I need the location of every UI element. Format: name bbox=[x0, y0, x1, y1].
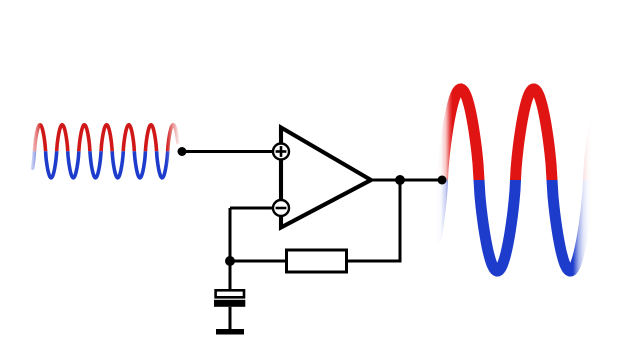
node: feedback junction dot bbox=[225, 256, 235, 266]
node: output terminal dot bbox=[438, 176, 447, 185]
wire: inverting input vertical down to feedback junction bbox=[229, 208, 232, 262]
op-amp U1 triangle bbox=[281, 128, 371, 228]
wire: input node to + input bbox=[182, 150, 274, 153]
wire: op-amp output to output node bbox=[368, 179, 442, 182]
op-amp non-inverting input circle bbox=[273, 144, 289, 160]
resistor R1 (feedback) bbox=[287, 250, 347, 272]
op-amp inverting input circle bbox=[273, 200, 289, 216]
wire: output branch vertical bbox=[399, 180, 402, 261]
node: input wave terminal dot bbox=[178, 147, 187, 156]
ground symbol bbox=[216, 329, 244, 335]
wire: inverting input horizontal bbox=[230, 207, 274, 210]
wire: resistor R1 right to output branch bbox=[345, 260, 402, 263]
output sine wave (red upper half) bbox=[436, 89, 612, 271]
wire: junction to resistor R1 left bbox=[230, 260, 287, 263]
input sine wave (red upper half) bbox=[33, 125, 179, 178]
node: output junction dot bbox=[395, 175, 405, 185]
wire: capacitor to ground bbox=[229, 307, 232, 330]
output sine wave (blue lower half) bbox=[436, 89, 612, 271]
minus symbol bbox=[276, 207, 287, 210]
capacitor C1 top plate (hollow) bbox=[216, 290, 244, 297]
plus symbol bbox=[276, 150, 287, 153]
capacitor C1 bottom plate (solid) bbox=[214, 300, 245, 307]
input sine wave (blue lower half) bbox=[33, 125, 179, 178]
wire: junction down to capacitor C1 bbox=[229, 261, 232, 291]
